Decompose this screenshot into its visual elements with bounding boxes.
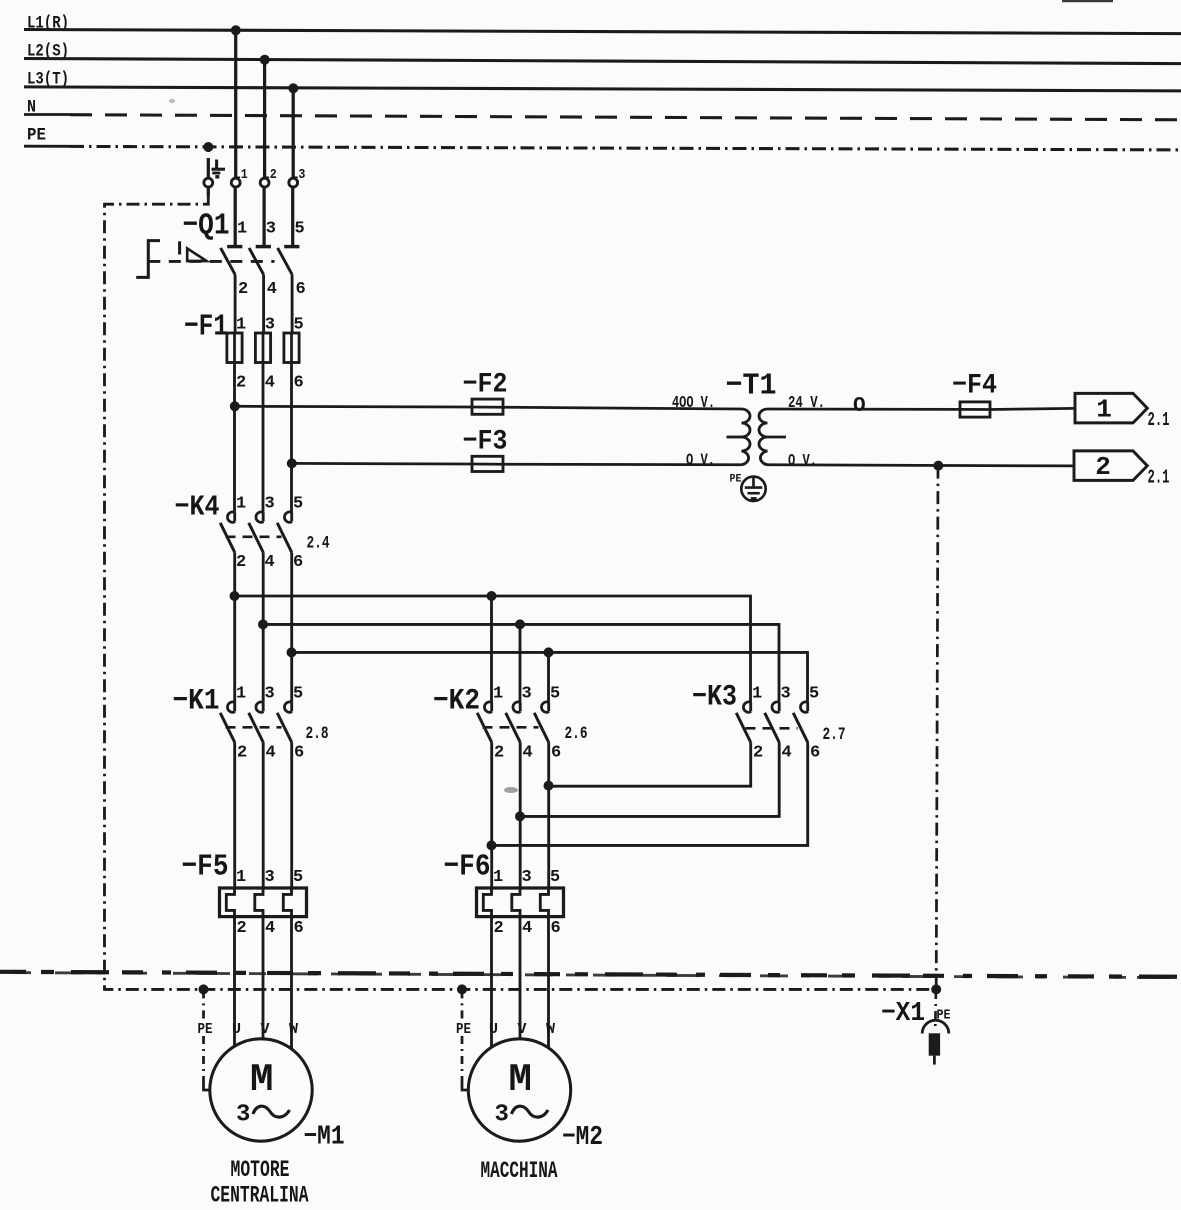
- wire F6 to motor M2 terminal U: [490, 917, 493, 1048]
- Q1 handle: [136, 241, 160, 278]
- svg-text:4: 4: [265, 374, 275, 393]
- svg-text:4: 4: [265, 919, 275, 938]
- bus N (dashed): [24, 98, 1181, 120]
- node: M2 PE tap: [457, 984, 467, 994]
- svg-text:6: 6: [296, 280, 306, 299]
- svg-text:1: 1: [493, 868, 503, 887]
- svg-text:5: 5: [550, 685, 560, 704]
- svg-text:4: 4: [267, 280, 277, 299]
- svg-text:4: 4: [782, 744, 792, 763]
- wire L2 drop to terminal: [263, 60, 266, 178]
- svg-text:2: 2: [1095, 452, 1111, 482]
- svg-text:4OO V.: 4OO V.: [672, 393, 715, 412]
- contactor K4 pole 5 moving-contact arc: [290, 512, 293, 521]
- wire L3 terminal to Q1: [291, 187, 294, 247]
- svg-text:3: 3: [265, 685, 275, 704]
- wire F1 to K4 pole3: [290, 363, 293, 513]
- node: bus1 tap at K4 pole1: [230, 591, 240, 601]
- wire 0V to terminal X1 (dash-dot): [936, 466, 938, 990]
- T1 primary mid tap stub: [727, 436, 742, 439]
- svg-text:V: V: [261, 1021, 270, 1038]
- svg-text:V: V: [518, 1021, 527, 1038]
- bus L2(S): [24, 42, 1181, 64]
- wire K2 pole1 to F6: [490, 742, 493, 888]
- terminal L1 (circle): [231, 178, 240, 187]
- contactor K2 pole 1 moving-contact arc: [490, 702, 493, 711]
- contactor K3 pole 3 moving-contact arc: [778, 702, 781, 711]
- wire L1 terminal to Q1: [234, 187, 237, 247]
- svg-text:6: 6: [293, 553, 303, 572]
- wire F3 to T1 primary 0V: [503, 463, 742, 466]
- svg-text:−K4: −K4: [175, 491, 220, 524]
- svg-text:−F2: −F2: [463, 370, 508, 401]
- contactor K4 pole 5 blade: [277, 523, 292, 553]
- svg-text:−K1: −K1: [173, 685, 220, 719]
- wire bus3 drop to K2 pole5: [547, 652, 550, 702]
- svg-text:3: 3: [236, 1102, 250, 1129]
- svg-text:−K3: −K3: [692, 681, 737, 715]
- svg-text:6: 6: [810, 744, 820, 763]
- svg-text:4: 4: [265, 553, 275, 572]
- F6 heater element pole 5: [540, 888, 548, 917]
- svg-text:−F6: −F6: [444, 850, 491, 885]
- svg-text:5: 5: [293, 685, 303, 704]
- node: bus2 tap to K2 pole3: [515, 619, 525, 629]
- wire K3 pole4 to K2 pole4 node: [520, 742, 779, 816]
- svg-text:3: 3: [265, 495, 275, 514]
- contactor K1 pole 1 blade: [220, 713, 235, 743]
- wire M1 PE to motor frame: [202, 1036, 205, 1082]
- svg-text:2: 2: [236, 553, 246, 572]
- svg-text:5: 5: [293, 495, 303, 514]
- svg-text:2.6: 2.6: [565, 724, 588, 744]
- wire bus2 drop to K2 pole3: [519, 624, 522, 702]
- node: bus3 tap to K2 pole5: [544, 647, 554, 657]
- F6 body: [477, 888, 564, 917]
- svg-text:3: 3: [522, 685, 532, 704]
- node: junction K2 pole2: [487, 840, 497, 850]
- wire F1 to K4 pole1: [233, 363, 236, 513]
- wire bus1 drop to K2 pole1: [490, 596, 493, 702]
- wire K4 to K1 pole1: [233, 552, 236, 702]
- svg-text:CENTRALINA: CENTRALINA: [211, 1183, 310, 1210]
- Q1 mechanical link (dashed): [148, 260, 274, 263]
- wire L1 drop to terminal: [234, 30, 237, 178]
- svg-text:−Q1: −Q1: [183, 209, 230, 244]
- K1 mechanical link (dashed): [226, 726, 282, 729]
- bus PE (dash-dot): [24, 126, 1181, 150]
- svg-text:−X1: −X1: [881, 999, 925, 1029]
- svg-text:L2: L2: [263, 167, 277, 183]
- F5 heater element pole 3: [255, 888, 263, 917]
- terminal L3 (circle): [289, 178, 298, 187]
- svg-text:2.1: 2.1: [1148, 409, 1170, 431]
- terminal PE (circle): [204, 178, 213, 187]
- F1 fuse element pole 3: [262, 333, 265, 363]
- node: L2 tap junction: [260, 55, 270, 65]
- Q1 pole 1-2 blade: [221, 248, 236, 275]
- svg-text:PE: PE: [456, 1022, 471, 1038]
- svg-text:−F1: −F1: [184, 310, 228, 345]
- svg-text:3: 3: [781, 685, 791, 704]
- svg-text:4: 4: [266, 744, 276, 763]
- svg-text:−F4: −F4: [952, 371, 997, 402]
- svg-text:W: W: [546, 1021, 555, 1038]
- Q1 actuator tick: [178, 241, 181, 254]
- contactor K1 pole 5 moving-contact arc: [290, 702, 293, 711]
- svg-text:1: 1: [237, 220, 247, 239]
- X1 terminal tail: [933, 1056, 936, 1065]
- scan artifact: speck near K2: [504, 787, 518, 793]
- wire L3 drop to terminal: [292, 88, 295, 178]
- node: L3 tap junction: [288, 83, 298, 93]
- terminal L2 (circle): [260, 178, 269, 187]
- T1 PE earth circle: [741, 477, 765, 501]
- svg-text:5: 5: [809, 685, 819, 704]
- contactor K2 pole 5 moving-contact arc: [547, 702, 550, 711]
- contactor K4 pole 3 blade: [249, 523, 264, 553]
- svg-text:6: 6: [294, 744, 304, 763]
- svg-text:MOTORE: MOTORE: [231, 1157, 290, 1184]
- bus L1(R): [24, 14, 1181, 34]
- K2 mechanical link (dashed): [483, 726, 539, 729]
- svg-text:−M2: −M2: [562, 1123, 603, 1153]
- node: junction K2 pole6: [544, 781, 554, 791]
- contactor K3 pole 3 blade: [765, 713, 780, 743]
- wire bus2 (phase2 distribution): [263, 624, 779, 702]
- T1 primary winding: [742, 409, 751, 465]
- svg-text:M: M: [250, 1058, 273, 1102]
- svg-text:−K2: −K2: [433, 685, 480, 719]
- wire F6 to motor M2 terminal W: [547, 917, 550, 1048]
- svg-text:4: 4: [523, 744, 533, 763]
- node: PE tap junction: [203, 142, 213, 152]
- wire K4 to K1 pole3: [290, 552, 293, 702]
- node: X1 PE tap: [931, 984, 941, 994]
- contactor K1 pole 3 moving-contact arc: [262, 702, 265, 711]
- svg-text:−T1: −T1: [726, 369, 777, 404]
- svg-text:2.8: 2.8: [306, 724, 329, 744]
- wire K4 to K1 pole2: [262, 552, 265, 702]
- Q1 pole 1-2 fixed contact bar: [227, 245, 242, 248]
- wire PE drop (dash-dot) to terminal: [207, 147, 210, 163]
- svg-text:MACCHINA: MACCHINA: [481, 1158, 559, 1185]
- contactor K3 pole 5 moving-contact arc: [806, 702, 809, 711]
- motor M2 circle: [468, 1039, 570, 1141]
- node: bus3 tap at K4 pole3: [287, 647, 297, 657]
- svg-text:O V.: O V.: [686, 450, 715, 469]
- motor M1 circle: [210, 1039, 312, 1141]
- wire bus3 (phase3 distribution): [292, 652, 808, 702]
- wire Q1 to F1 pole1: [234, 275, 237, 333]
- motor M1 tilde: [253, 1106, 290, 1117]
- wire F5 to motor M1 terminal V: [262, 917, 265, 1039]
- svg-text:O: O: [853, 395, 866, 418]
- wire F5 to motor M1 terminal W: [290, 917, 293, 1049]
- svg-text:1: 1: [236, 495, 246, 514]
- wire K1 to F5 pole1: [233, 742, 236, 888]
- svg-text:3: 3: [265, 868, 275, 887]
- wire Q1 to F1 pole3: [291, 275, 294, 333]
- svg-text:−F5: −F5: [182, 850, 229, 885]
- svg-text:1: 1: [236, 685, 246, 704]
- wire F1 to K4 pole2: [262, 363, 265, 513]
- svg-text:2.7: 2.7: [823, 725, 846, 745]
- Q1 pole 5-6 fixed contact bar: [284, 245, 299, 248]
- svg-text:2.1: 2.1: [1148, 467, 1170, 489]
- svg-text:3: 3: [495, 1102, 509, 1129]
- contactor K4 pole 1 moving-contact arc: [233, 512, 236, 521]
- heavy smudged dashed line (scan fold): [0, 972, 1181, 977]
- svg-text:2: 2: [236, 374, 246, 393]
- F5 body: [220, 888, 307, 917]
- svg-text:3: 3: [522, 868, 532, 887]
- T1 secondary winding: [759, 409, 768, 465]
- node: tap on phase 1 for F2: [230, 401, 240, 411]
- node: bus2 tap at K4 pole2: [258, 619, 268, 629]
- contactor K2 pole 3 blade: [506, 713, 521, 743]
- scan artifact: top edge mark: [1062, 0, 1113, 2]
- svg-text:W: W: [289, 1021, 298, 1038]
- ground (earth) symbol at PE drop: [212, 160, 226, 177]
- wire K1 to F5 pole3: [290, 742, 293, 888]
- wire F4 to connector 1: [990, 408, 1075, 409]
- node: junction K2 pole4: [515, 811, 525, 821]
- wire bus1 (phase1 distribution): [235, 596, 751, 702]
- F5 heater element pole 1: [226, 888, 234, 917]
- svg-text:6: 6: [294, 919, 304, 938]
- svg-text:5: 5: [295, 220, 305, 239]
- svg-text:2: 2: [753, 744, 763, 763]
- svg-text:5: 5: [293, 868, 303, 887]
- svg-text:PE: PE: [730, 474, 742, 486]
- svg-text:2: 2: [237, 919, 247, 938]
- svg-text:2: 2: [494, 919, 504, 938]
- wire F6 to motor M2 terminal V: [519, 917, 522, 1039]
- contactor K1 pole 5 blade: [277, 713, 292, 743]
- wire K2 pole3 to F6: [519, 742, 522, 888]
- Q1 trip release triangle: [187, 248, 206, 261]
- svg-text:6: 6: [294, 374, 304, 393]
- svg-text:6: 6: [551, 919, 561, 938]
- svg-text:L3: L3: [291, 167, 305, 183]
- wire F2 to T1 primary 400V: [503, 407, 742, 409]
- contactor K4 pole 3 moving-contact arc: [262, 512, 265, 521]
- X1 terminal body (filled): [929, 1033, 940, 1055]
- wire phase1 to fuse F2: [235, 405, 473, 408]
- svg-text:PE: PE: [198, 1022, 213, 1038]
- svg-text:6: 6: [551, 744, 561, 763]
- contactor K3 pole 5 blade: [793, 713, 808, 743]
- svg-text:U: U: [489, 1021, 498, 1038]
- F6 heater element pole 1: [483, 888, 491, 917]
- wire M2 PE drop (dash-dot): [461, 989, 464, 1018]
- svg-text:−F3: −F3: [463, 427, 508, 458]
- fuse F4: [960, 408, 990, 411]
- F6 heater element pole 3: [512, 888, 520, 917]
- node: 0V tap junction for X1: [933, 461, 943, 471]
- svg-text:−M1: −M1: [304, 1123, 345, 1153]
- svg-text:4: 4: [522, 919, 532, 938]
- contactor K2 pole 5 blade: [534, 713, 549, 743]
- wire K1 to F5 pole2: [262, 742, 265, 888]
- svg-text:2: 2: [238, 280, 248, 299]
- svg-text:U: U: [232, 1021, 241, 1038]
- off-page connector 1: [1075, 393, 1147, 423]
- Q1 pole 3-4 blade: [249, 248, 264, 275]
- motor M2 tilde: [512, 1106, 549, 1117]
- wire X1 tap to PE terminal (dash-dot): [934, 991, 937, 1027]
- svg-text:1: 1: [752, 685, 762, 704]
- contactor K2 pole 3 moving-contact arc: [519, 702, 522, 711]
- contactor K1 pole 1 moving-contact arc: [233, 702, 236, 711]
- svg-text:PE: PE: [27, 126, 46, 146]
- wire T1 24V to F4: [768, 408, 961, 411]
- F1 fuse element pole 1: [233, 333, 236, 363]
- off-page connector 2: [1074, 451, 1147, 481]
- F5 heater element pole 5: [283, 888, 291, 917]
- scan artifact: speck left: [169, 99, 175, 103]
- svg-text:L1: L1: [234, 167, 248, 183]
- node: M1 PE tap: [199, 984, 209, 994]
- Q1 pole 3-4 fixed contact bar: [256, 245, 271, 248]
- contactor K1 pole 3 blade: [249, 713, 264, 743]
- wire T1 0V secondary to connector 2: [768, 465, 1075, 466]
- T1 secondary mid tap stub: [768, 436, 787, 439]
- wire M1 PE drop (dash-dot): [202, 989, 205, 1018]
- K3 mechanical link (dashed): [746, 727, 798, 730]
- svg-text:2: 2: [237, 744, 247, 763]
- svg-text:1: 1: [493, 685, 503, 704]
- wire M2 PE to motor frame: [461, 1036, 464, 1082]
- svg-text:M: M: [508, 1058, 531, 1102]
- wire phase3 to fuse F3: [292, 462, 473, 465]
- svg-text:3: 3: [266, 220, 276, 239]
- wire K2 pole5 to F6: [547, 742, 550, 888]
- svg-text:1: 1: [236, 868, 246, 887]
- wire below PE terminal: [207, 187, 210, 197]
- bus L3(T): [24, 70, 1181, 91]
- node: tap on phase 3 for F3: [287, 458, 297, 468]
- fuse F2: [472, 406, 503, 409]
- wire L2 terminal to Q1: [262, 187, 265, 247]
- svg-text:1: 1: [1096, 395, 1112, 425]
- svg-text:2: 2: [494, 744, 504, 763]
- contactor K3 pole 1 moving-contact arc: [749, 702, 752, 711]
- wire F5 to motor M1 terminal U: [233, 917, 236, 1047]
- enclosure border (dash-dot): PE bonding boundary: [105, 197, 937, 990]
- contactor K4 pole 1 blade: [220, 523, 235, 553]
- wire Q1 to F1 pole2: [262, 275, 265, 333]
- wire K3 pole6 to K2 pole2 node: [492, 742, 808, 845]
- Q1 pole 5-6 blade: [278, 248, 293, 275]
- contactor K3 pole 1 blade: [736, 713, 751, 743]
- svg-text:5: 5: [550, 868, 560, 887]
- svg-text:O V.: O V.: [788, 451, 817, 470]
- node: L1 tap junction: [231, 25, 241, 35]
- X1 terminal hood arc: [922, 1020, 949, 1033]
- wire K3 pole2 to K2 pole6 node: [549, 742, 751, 786]
- svg-text:2.4: 2.4: [307, 534, 330, 554]
- F1 fuse element pole 5: [290, 333, 293, 363]
- fuse F3: [472, 463, 503, 466]
- K4 mechanical link (dashed): [226, 535, 282, 538]
- node: bus1 tap to K2 pole1: [487, 591, 497, 601]
- contactor K2 pole 1 blade: [477, 713, 492, 743]
